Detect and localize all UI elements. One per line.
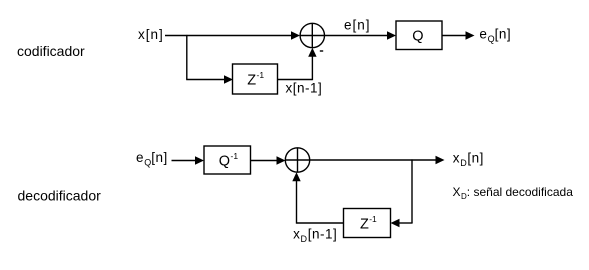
svg-text:Z: Z xyxy=(360,216,369,232)
svg-text:e[n]: e[n] xyxy=(344,18,371,33)
svg-text:D: D xyxy=(460,158,467,168)
inverse quantizer block Q-1 xyxy=(204,146,251,174)
quantizer block Q xyxy=(396,21,442,50)
wire summer S2 to xD[n] xyxy=(310,159,437,161)
delay block Z-1 encoder xyxy=(233,64,278,94)
wire eQ[n] to Q-1 xyxy=(172,160,198,162)
svg-text:decodificador: decodificador xyxy=(18,188,102,204)
svg-text:[n-1]: [n-1] xyxy=(308,227,338,242)
delay block Z-1 decoder xyxy=(344,209,391,238)
svg-text:e: e xyxy=(479,27,487,42)
wire branch down from x[n] line xyxy=(186,35,188,80)
svg-text:x: x xyxy=(293,227,300,242)
svg-text:-1: -1 xyxy=(257,70,265,80)
svg-text:X: X xyxy=(453,185,461,199)
svg-text:[n]: [n] xyxy=(467,151,484,166)
svg-text:x: x xyxy=(453,151,460,166)
svg-text:e: e xyxy=(136,150,144,165)
wire summer S1 to Q xyxy=(325,35,390,37)
svg-text:: señal decodificada: : señal decodificada xyxy=(467,185,573,199)
svg-text:-1: -1 xyxy=(369,214,377,224)
svg-text:Q: Q xyxy=(412,29,423,45)
svg-text:x[n]: x[n] xyxy=(138,27,164,42)
wire branch to Z-1 encoder xyxy=(186,79,226,81)
wire Z-1 encoder output up to summer S1 xyxy=(278,79,313,81)
wire x[n] to summer S1 xyxy=(165,35,293,37)
wire Z-1 decoder output up to summer S2 xyxy=(297,222,344,224)
svg-text:[n]: [n] xyxy=(495,27,512,42)
svg-text:-1: -1 xyxy=(231,151,239,161)
svg-text:[n]: [n] xyxy=(151,150,168,165)
wire branch to Z-1 decoder xyxy=(398,222,413,224)
svg-text:D: D xyxy=(301,234,308,244)
svg-text:Q: Q xyxy=(488,34,495,44)
svg-text:x[n-1]: x[n-1] xyxy=(286,81,323,96)
summer S1 encoder xyxy=(300,23,324,47)
svg-text:Q: Q xyxy=(144,158,151,168)
wire Q to eQ[n] xyxy=(442,35,467,37)
minus sign at summer S1 xyxy=(320,50,323,52)
svg-text:Z: Z xyxy=(247,73,256,89)
svg-text:Q: Q xyxy=(219,154,230,170)
wire output branch down xyxy=(411,159,413,223)
svg-text:codificador: codificador xyxy=(17,43,85,59)
wire Q-1 to summer S2 xyxy=(251,160,279,162)
summer S2 decoder xyxy=(285,148,309,172)
